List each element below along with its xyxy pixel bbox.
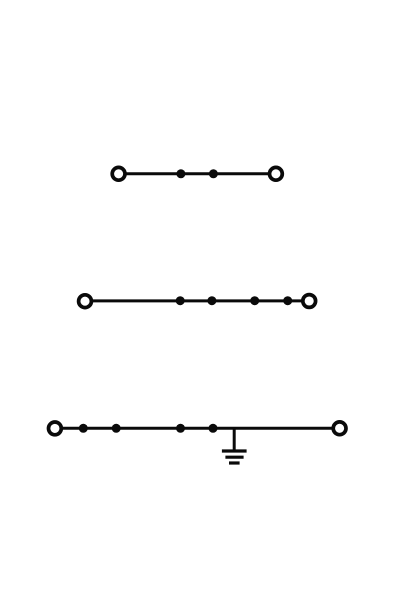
junction dot top rail 1 — [176, 169, 185, 178]
wire middle rail (level 2) — [85, 299, 309, 302]
wire top rail (level 1) — [119, 172, 276, 175]
junction dot middle rail 2 — [207, 296, 216, 305]
junction dot bottom rail 1 — [79, 424, 88, 433]
wire bottom rail (level 3, PE) — [55, 427, 340, 430]
terminal circle bottom-left — [49, 422, 62, 435]
junction dot bottom rail 2 — [112, 424, 121, 433]
terminal circle top-left — [112, 167, 125, 180]
junction dot bottom rail 3 — [176, 424, 185, 433]
junction dot bottom rail 4 — [209, 424, 218, 433]
terminal circle bottom-right — [333, 422, 346, 435]
junction dot middle rail 3 — [250, 296, 259, 305]
terminal circle top-right — [270, 167, 283, 180]
terminal circle middle-right — [303, 295, 316, 308]
terminal circle middle-left — [79, 295, 92, 308]
junction dot top rail 2 — [209, 169, 218, 178]
wire ground tap (vertical) — [233, 428, 236, 451]
ground symbol — [222, 451, 247, 463]
junction dot middle rail 4 — [283, 296, 292, 305]
junction dot middle rail 1 — [176, 296, 185, 305]
